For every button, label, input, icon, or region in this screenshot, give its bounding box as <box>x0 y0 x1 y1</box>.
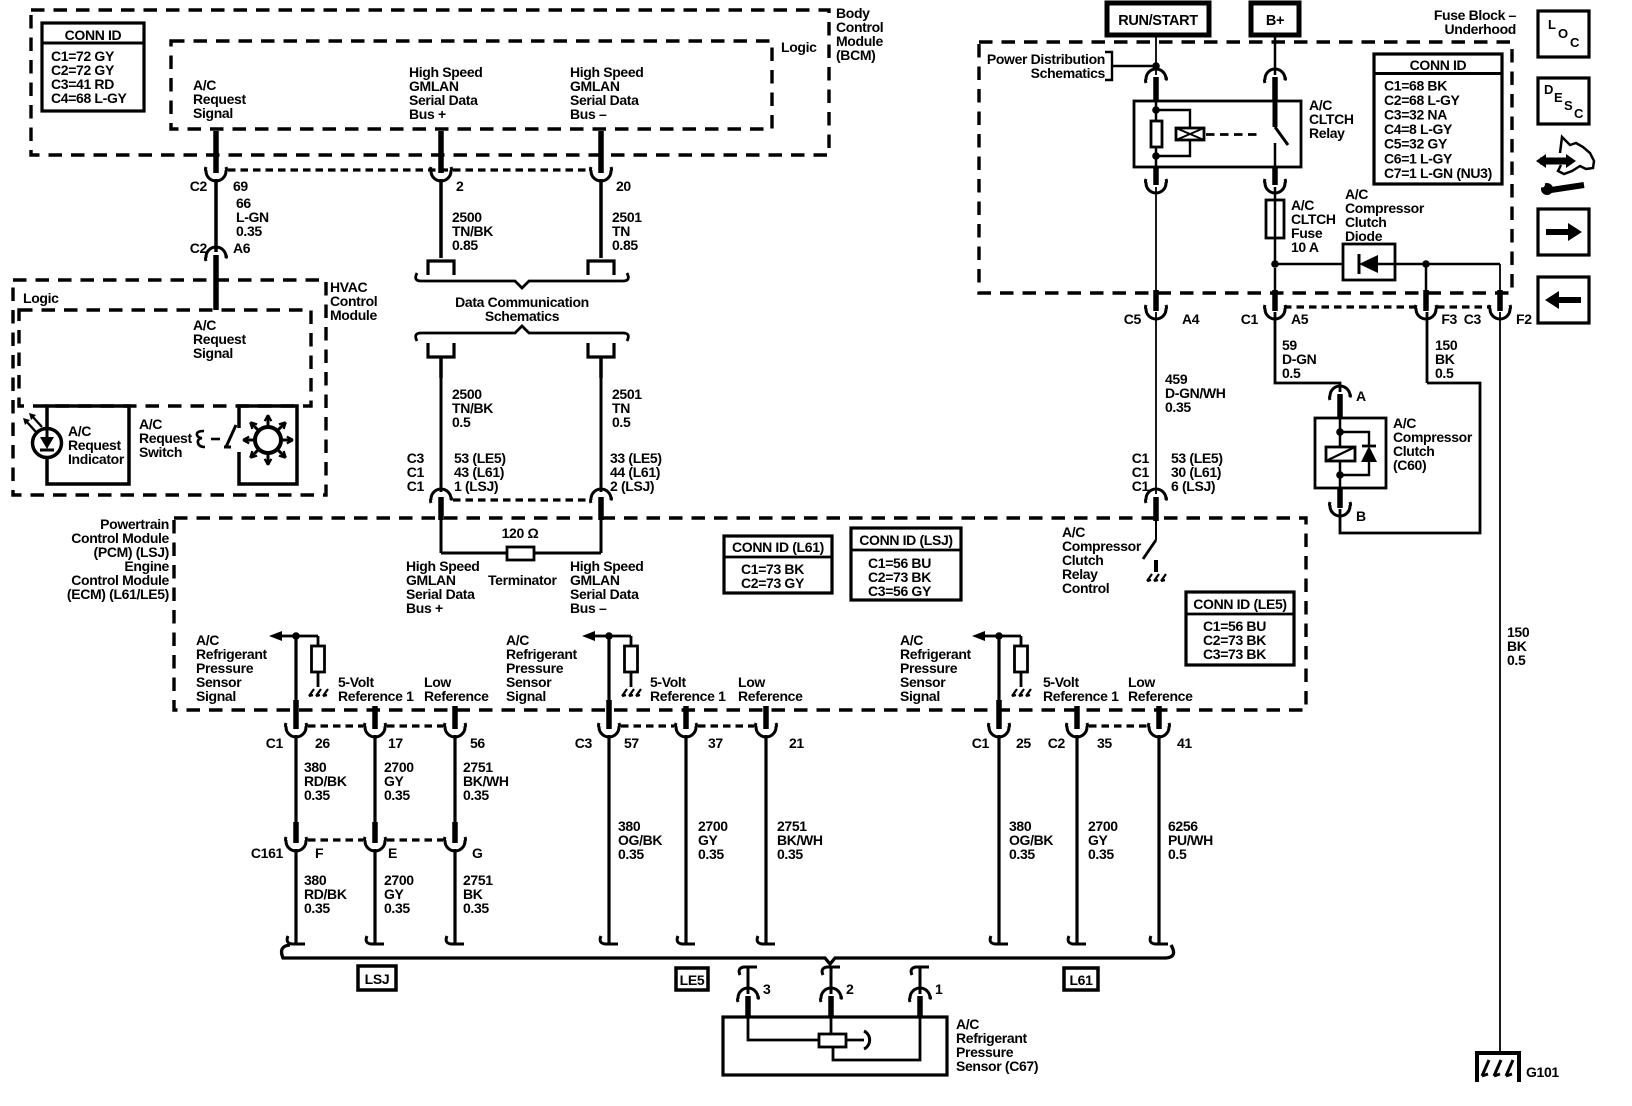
svg-text:Reference 1: Reference 1 <box>1043 688 1119 704</box>
svg-text:E: E <box>388 845 397 861</box>
svg-text:C1: C1 <box>972 735 990 751</box>
svg-text:Reference 1: Reference 1 <box>650 688 726 704</box>
svg-text:Schematics: Schematics <box>1031 65 1106 81</box>
svg-text:A: A <box>1356 388 1366 404</box>
svg-text:C3=73 BK: C3=73 BK <box>1203 646 1266 662</box>
svg-text:G101: G101 <box>1526 1064 1559 1080</box>
svg-text:F3: F3 <box>1441 311 1457 327</box>
svg-text:Signal: Signal <box>900 688 940 704</box>
svg-text:Logic: Logic <box>23 290 59 306</box>
svg-text:Bus –: Bus – <box>570 600 607 616</box>
svg-text:Signal: Signal <box>506 688 546 704</box>
svg-text:C: C <box>1574 106 1584 121</box>
svg-text:Reference: Reference <box>738 688 803 704</box>
svg-text:B+: B+ <box>1266 13 1284 29</box>
svg-text:(C60): (C60) <box>1393 457 1426 473</box>
svg-text:A4: A4 <box>1182 311 1200 327</box>
svg-text:S: S <box>1564 98 1573 113</box>
svg-text:0.5: 0.5 <box>452 414 471 430</box>
svg-text:C3: C3 <box>575 735 593 751</box>
svg-text:0.35: 0.35 <box>463 787 489 803</box>
svg-text:C3=56 GY: C3=56 GY <box>868 583 932 599</box>
svg-text:26: 26 <box>315 735 330 751</box>
svg-text:Terminator: Terminator <box>488 572 557 588</box>
svg-text:Switch: Switch <box>139 444 182 460</box>
svg-text:0.35: 0.35 <box>463 900 489 916</box>
svg-text:O: O <box>1558 26 1568 41</box>
svg-text:C4=68 L-GY: C4=68 L-GY <box>51 90 127 106</box>
svg-text:0.5: 0.5 <box>1282 365 1301 381</box>
svg-text:0.35: 0.35 <box>618 846 644 862</box>
svg-text:A5: A5 <box>1291 311 1309 327</box>
svg-text:0.35: 0.35 <box>384 787 410 803</box>
svg-text:6 (LSJ): 6 (LSJ) <box>1171 478 1215 494</box>
svg-text:CONN ID (L61): CONN ID (L61) <box>732 539 824 555</box>
svg-text:37: 37 <box>708 735 723 751</box>
svg-text:LSJ: LSJ <box>365 971 390 987</box>
svg-text:1: 1 <box>935 981 943 997</box>
svg-text:(ECM) (L61/LE5): (ECM) (L61/LE5) <box>67 586 169 602</box>
svg-text:C2: C2 <box>190 178 208 194</box>
svg-text:CONN ID (LE5): CONN ID (LE5) <box>1193 596 1286 612</box>
svg-text:C2: C2 <box>190 240 208 256</box>
svg-text:L61: L61 <box>1069 972 1093 988</box>
svg-text:CONN ID: CONN ID <box>65 27 122 43</box>
svg-text:CONN ID: CONN ID <box>1410 57 1467 73</box>
svg-text:Bus +: Bus + <box>409 106 446 122</box>
svg-text:C1: C1 <box>407 478 425 494</box>
svg-text:F: F <box>315 845 324 861</box>
svg-text:A6: A6 <box>233 240 251 256</box>
svg-text:21: 21 <box>789 735 804 751</box>
svg-text:C2=73 GY: C2=73 GY <box>741 575 805 591</box>
svg-text:C5: C5 <box>1124 311 1142 327</box>
svg-text:Signal: Signal <box>193 345 233 361</box>
svg-text:Reference: Reference <box>424 688 489 704</box>
svg-text:Underhood: Underhood <box>1444 21 1516 37</box>
svg-text:LE5: LE5 <box>680 972 705 988</box>
svg-text:0.35: 0.35 <box>304 787 330 803</box>
svg-text:0.5: 0.5 <box>612 414 631 430</box>
svg-text:Bus –: Bus – <box>570 106 607 122</box>
svg-text:2 (LSJ): 2 (LSJ) <box>610 478 654 494</box>
svg-text:0.35: 0.35 <box>1088 846 1114 862</box>
svg-text:Reference: Reference <box>1128 688 1193 704</box>
svg-text:C161: C161 <box>251 845 284 861</box>
svg-text:RUN/START: RUN/START <box>1118 13 1198 29</box>
svg-text:57: 57 <box>624 735 639 751</box>
svg-text:2: 2 <box>846 981 854 997</box>
svg-text:0.85: 0.85 <box>452 237 478 253</box>
svg-text:0.5: 0.5 <box>1507 652 1526 668</box>
svg-text:0.35: 0.35 <box>698 846 724 862</box>
svg-text:C1: C1 <box>1132 478 1150 494</box>
svg-text:0.35: 0.35 <box>777 846 803 862</box>
svg-text:Relay: Relay <box>1309 125 1345 141</box>
svg-text:D: D <box>1544 82 1553 97</box>
svg-text:Schematics: Schematics <box>485 308 560 324</box>
svg-text:C7=1 L-GN (NU3): C7=1 L-GN (NU3) <box>1384 165 1492 181</box>
svg-text:(BCM): (BCM) <box>836 47 875 63</box>
svg-text:20: 20 <box>616 178 631 194</box>
svg-text:Logic: Logic <box>781 39 817 55</box>
svg-text:3: 3 <box>763 981 771 997</box>
svg-text:G: G <box>472 845 483 861</box>
svg-text:25: 25 <box>1016 735 1031 751</box>
svg-text:Sensor (C67): Sensor (C67) <box>956 1058 1038 1074</box>
svg-text:0.5: 0.5 <box>1435 365 1454 381</box>
svg-text:41: 41 <box>1177 735 1192 751</box>
svg-text:C1: C1 <box>266 735 284 751</box>
svg-text:0.35: 0.35 <box>1165 399 1191 415</box>
svg-text:CONN ID (LSJ): CONN ID (LSJ) <box>859 532 952 548</box>
svg-text:120 Ω: 120 Ω <box>502 525 539 541</box>
svg-text:0.85: 0.85 <box>612 237 638 253</box>
svg-text:0.35: 0.35 <box>1009 846 1035 862</box>
svg-text:Signal: Signal <box>196 688 236 704</box>
svg-text:Control: Control <box>1062 580 1109 596</box>
svg-text:Diode: Diode <box>1345 228 1383 244</box>
svg-text:69: 69 <box>233 178 248 194</box>
svg-text:56: 56 <box>470 735 485 751</box>
svg-text:0.35: 0.35 <box>236 223 262 239</box>
svg-text:Reference 1: Reference 1 <box>338 688 414 704</box>
svg-text:17: 17 <box>388 735 403 751</box>
svg-text:C1: C1 <box>1241 311 1259 327</box>
svg-text:E: E <box>1554 90 1563 105</box>
svg-text:0.5: 0.5 <box>1168 846 1187 862</box>
svg-text:Module: Module <box>330 307 377 323</box>
svg-text:C3: C3 <box>1464 311 1482 327</box>
svg-text:1 (LSJ): 1 (LSJ) <box>454 478 498 494</box>
svg-text:0.35: 0.35 <box>384 900 410 916</box>
svg-text:Bus +: Bus + <box>406 600 443 616</box>
svg-text:C2: C2 <box>1048 735 1066 751</box>
svg-text:Signal: Signal <box>193 105 233 121</box>
svg-text:F2: F2 <box>1516 311 1532 327</box>
svg-text:B: B <box>1356 508 1366 524</box>
svg-text:10 A: 10 A <box>1291 239 1319 255</box>
svg-text:Indicator: Indicator <box>68 451 125 467</box>
svg-text:0.35: 0.35 <box>304 900 330 916</box>
svg-text:2: 2 <box>456 178 464 194</box>
svg-text:35: 35 <box>1097 735 1112 751</box>
svg-text:C: C <box>1570 35 1580 50</box>
svg-text:L: L <box>1548 17 1556 32</box>
